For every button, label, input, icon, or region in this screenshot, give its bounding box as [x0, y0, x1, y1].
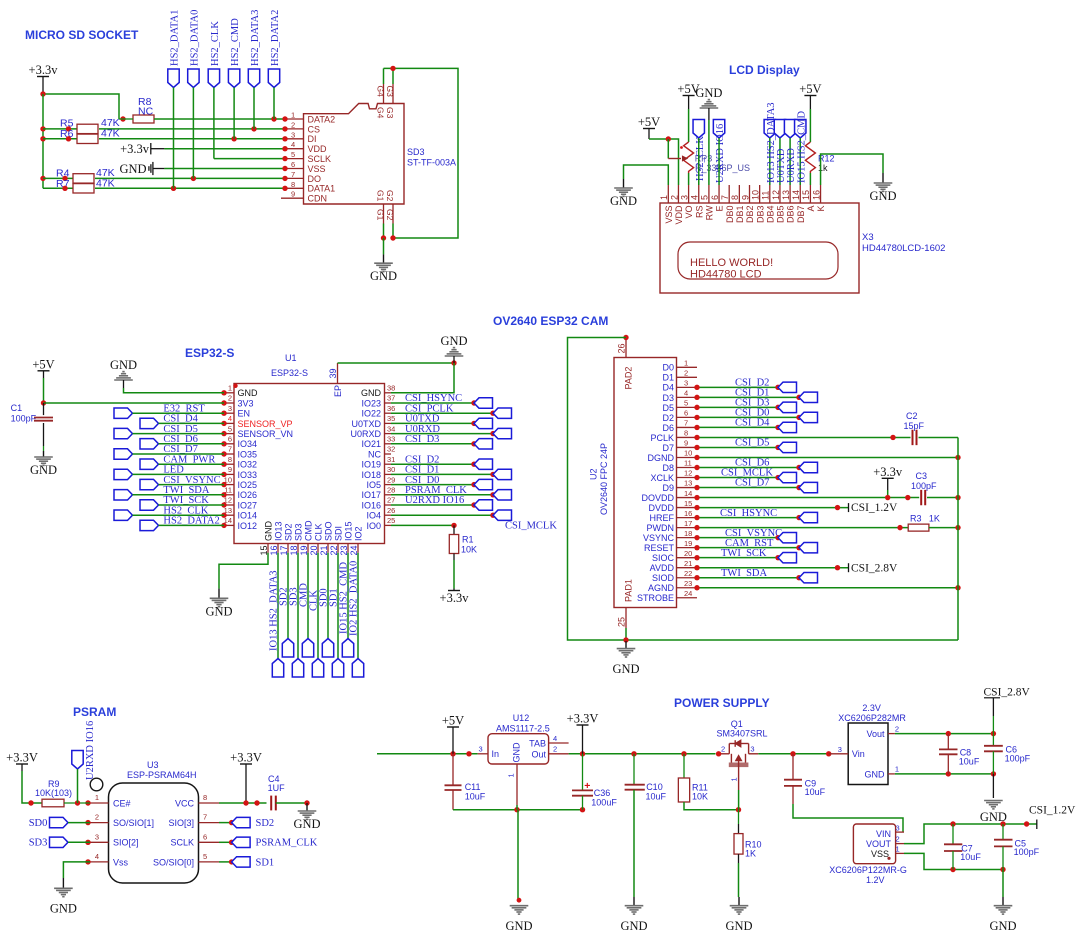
svg-text:Vss: Vss — [113, 857, 129, 867]
svg-text:PSRAM: PSRAM — [73, 705, 116, 719]
wire gnd to pin1 — [124, 380, 225, 393]
junction — [796, 465, 801, 470]
ground — [695, 86, 722, 120]
pin 13 IO14 — [224, 506, 257, 521]
nc circle — [90, 778, 103, 791]
svg-text:SD3: SD3 — [29, 838, 48, 849]
resistor R9 — [35, 779, 72, 807]
pin G4 top — [375, 84, 385, 119]
ground — [612, 641, 639, 676]
svg-text:U2RXD IO16: U2RXD IO16 — [85, 721, 96, 780]
svg-text:CE#: CE# — [113, 798, 131, 808]
pin 5 SENSOR_VN — [224, 424, 293, 439]
svg-text:HS2_DATA0: HS2_DATA0 — [189, 10, 200, 66]
junction — [471, 441, 476, 446]
wire — [809, 173, 811, 185]
power flag +3.3V — [567, 712, 599, 754]
svg-text:D3: D3 — [662, 393, 674, 403]
svg-text:5: 5 — [203, 852, 207, 861]
wire rail mid — [569, 753, 716, 755]
junction — [950, 821, 955, 826]
pin 11 IO26 — [224, 486, 257, 501]
junction — [62, 186, 67, 191]
junction — [62, 176, 67, 181]
wire row8 DATA1 — [95, 187, 285, 189]
junction — [466, 751, 471, 756]
svg-text:30: 30 — [387, 465, 395, 474]
svg-text:2: 2 — [291, 120, 295, 129]
junction — [826, 751, 831, 756]
svg-text:10uF: 10uF — [805, 787, 826, 797]
svg-text:RS: RS — [694, 206, 704, 219]
resistor R12 — [805, 142, 834, 173]
power flag +3.3V — [230, 751, 262, 804]
net flag TWI_SCK — [778, 552, 797, 562]
net port CSI_2.8V — [849, 562, 899, 574]
svg-text:ST-TF-003A: ST-TF-003A — [407, 158, 456, 168]
svg-text:EP: EP — [333, 385, 343, 397]
svg-text:OV2640 ESP32 CAM: OV2640 ESP32 CAM — [493, 314, 608, 328]
svg-text:7: 7 — [291, 170, 295, 179]
junction — [40, 136, 45, 141]
pin 24 IO2 — [349, 526, 364, 555]
junction — [282, 176, 287, 181]
pin 1 VSS — [659, 185, 674, 224]
svg-text:17: 17 — [684, 519, 692, 528]
svg-text:HD44780LCD-1602: HD44780LCD-1602 — [862, 243, 945, 254]
pin 9 D7 — [662, 439, 697, 453]
svg-text:AGND: AGND — [648, 583, 675, 593]
junction — [694, 415, 699, 420]
wire — [1002, 870, 1004, 898]
pin 7 SIO[3] — [168, 813, 219, 828]
pin 2 CS — [285, 120, 320, 134]
svg-text:34: 34 — [387, 424, 395, 433]
junction — [517, 898, 522, 903]
svg-text:GND: GND — [869, 189, 896, 203]
net flag CSI_D3 — [474, 439, 493, 449]
pin 12 XCLK — [650, 469, 697, 483]
junction — [282, 146, 287, 151]
svg-text:Q1: Q1 — [731, 719, 743, 729]
junction — [1024, 821, 1029, 826]
svg-text:IO33: IO33 — [238, 470, 258, 480]
svg-text:DI: DI — [308, 134, 317, 144]
svg-text:PAD2: PAD2 — [624, 367, 634, 390]
net flag SD1 — [232, 857, 251, 867]
wire — [789, 138, 791, 185]
resistor R8 — [133, 96, 154, 123]
junction — [471, 502, 476, 507]
wire wiper feed — [667, 139, 669, 159]
pin 31 IO19 — [361, 455, 395, 470]
net flag PSRAM_CLK — [493, 490, 512, 500]
svg-text:18: 18 — [684, 529, 692, 538]
wire row2 CS — [99, 128, 285, 130]
svg-text:GND: GND — [264, 521, 274, 542]
resistor R3 — [908, 514, 940, 531]
junction — [694, 575, 699, 580]
junction — [451, 360, 456, 365]
junction — [955, 495, 960, 500]
junction — [955, 455, 960, 460]
svg-text:6: 6 — [203, 832, 207, 841]
junction — [251, 126, 256, 131]
junction — [450, 751, 455, 756]
svg-text:U0RXD: U0RXD — [350, 429, 381, 439]
junction — [694, 485, 699, 490]
net label TWI_SDA — [721, 568, 767, 579]
wire vout row — [895, 733, 994, 735]
svg-text:DB2: DB2 — [745, 206, 755, 224]
net label SD2 — [256, 818, 275, 829]
svg-text:+5V: +5V — [799, 82, 821, 96]
junction — [191, 176, 196, 181]
pin G2 bottom — [385, 190, 395, 224]
wire — [391, 473, 493, 475]
junction — [1000, 867, 1005, 872]
svg-text:DB7: DB7 — [796, 206, 806, 224]
wire top loop — [384, 68, 459, 238]
svg-text:37: 37 — [387, 394, 395, 403]
junction — [694, 465, 699, 470]
net label HS2_CLK — [163, 505, 208, 516]
svg-text:NC: NC — [138, 106, 154, 118]
net label PSRAM_CLK — [405, 485, 467, 496]
svg-text:U2: U2 — [589, 468, 599, 480]
junction — [390, 235, 395, 240]
net flag TWI_SDA — [799, 573, 818, 583]
svg-text:2: 2 — [669, 195, 679, 200]
svg-text:SDO: SDO — [324, 521, 334, 541]
wire — [697, 547, 799, 549]
pin 5 SCLK — [285, 150, 331, 164]
svg-text:DB6: DB6 — [786, 206, 796, 224]
svg-text:10uF: 10uF — [959, 757, 980, 767]
net flag HS2_DATA1 — [168, 69, 179, 88]
svg-text:SIO[3]: SIO[3] — [168, 818, 194, 828]
junction — [716, 751, 721, 756]
junction — [221, 400, 226, 405]
svg-text:IO19: IO19 — [361, 460, 381, 470]
svg-text:AVDD: AVDD — [650, 563, 675, 573]
svg-text:GND: GND — [865, 770, 886, 780]
svg-text:DOVDD: DOVDD — [641, 493, 674, 503]
svg-text:VIN: VIN — [876, 829, 891, 839]
wire — [133, 412, 225, 414]
svg-text:1: 1 — [684, 359, 688, 368]
svg-text:2: 2 — [721, 744, 725, 753]
junction — [490, 472, 495, 477]
net flag CSI_D6 — [799, 462, 818, 472]
net port CSI_2.8V — [984, 687, 1031, 734]
ground — [505, 906, 532, 933]
wire — [133, 494, 225, 496]
wire gnd drop — [517, 810, 519, 899]
junction — [694, 495, 699, 500]
svg-text:GND: GND — [989, 919, 1016, 933]
pin 28 IO17 — [361, 486, 395, 501]
wire — [159, 422, 225, 424]
junction — [221, 523, 226, 528]
svg-text:2: 2 — [553, 745, 557, 754]
wire — [391, 504, 474, 506]
junction — [885, 495, 890, 500]
svg-text:TAB: TAB — [529, 739, 546, 749]
svg-text:SIOD: SIOD — [652, 573, 675, 583]
net label CAM_PWR — [163, 454, 215, 465]
svg-text:D4: D4 — [662, 383, 674, 393]
net label HS2_CLK — [695, 136, 706, 181]
wire row6 VSS — [164, 168, 285, 170]
net label CSI_D6 — [163, 434, 197, 445]
wire — [779, 138, 781, 185]
net label SD3 — [29, 838, 48, 849]
resistor R10 — [734, 810, 762, 859]
wire G4 up — [383, 68, 385, 84]
net flag IO2 HS2_DATA0 — [352, 659, 363, 678]
ic U4 body — [838, 703, 906, 785]
resistor R11 — [678, 754, 708, 802]
pin 6 E — [710, 185, 725, 212]
net label U0RXD — [405, 424, 440, 435]
junction — [796, 575, 801, 580]
net label SD2 — [278, 587, 289, 606]
junction — [694, 395, 699, 400]
power flag +3.3V — [6, 751, 38, 772]
wire — [927, 497, 958, 499]
wire — [697, 527, 908, 529]
wire +5v to pin2 — [649, 139, 679, 185]
svg-text:1K: 1K — [929, 514, 940, 524]
net label CLK — [308, 590, 319, 611]
svg-text:IO32: IO32 — [238, 460, 258, 470]
net flag SD3 — [292, 659, 303, 678]
wire vss row — [904, 853, 1003, 869]
pin 11 DB4 — [761, 185, 776, 223]
pin 22 SDI — [329, 526, 344, 556]
junction — [390, 66, 395, 71]
net label TWI_SCK — [721, 548, 767, 559]
svg-text:3: 3 — [479, 745, 483, 754]
wire — [77, 769, 79, 803]
junction — [796, 395, 801, 400]
net label E32_RST — [163, 403, 205, 414]
wire row1 DATA2 — [154, 118, 285, 120]
capacitor C4 — [268, 774, 286, 810]
junction — [381, 235, 386, 240]
pin 2 3V3 — [224, 394, 254, 409]
pin 2 Out — [549, 745, 569, 754]
net label CSI_D2 — [735, 378, 769, 389]
pin 4 RS — [690, 185, 705, 218]
net flag CSI_HSYNC — [474, 398, 493, 408]
pin G3 top — [385, 84, 395, 119]
ic U12 body — [488, 713, 550, 764]
svg-text:VO: VO — [684, 206, 694, 219]
svg-text:HD44780 LCD: HD44780 LCD — [690, 269, 762, 281]
junction — [694, 385, 699, 390]
pin 3 In — [478, 745, 488, 754]
svg-text:CMD: CMD — [304, 520, 314, 541]
svg-text:SENSOR_VP: SENSOR_VP — [238, 419, 293, 429]
pin 25 IO0 — [366, 516, 395, 531]
wire pin2 row — [44, 402, 225, 404]
svg-text:HS2_DATA2: HS2_DATA2 — [270, 10, 281, 66]
svg-text:5: 5 — [228, 424, 232, 433]
svg-text:4: 4 — [291, 140, 295, 149]
junction — [897, 525, 902, 530]
power flag +5V — [442, 714, 464, 754]
wire — [919, 436, 959, 438]
junction — [775, 475, 780, 480]
wire — [192, 88, 194, 179]
pin 35 U0TXD — [351, 414, 395, 429]
net flag HS2_DATA0 — [188, 69, 199, 88]
junction — [221, 451, 226, 456]
svg-text:C2: C2 — [906, 411, 918, 421]
net label LED — [163, 465, 184, 476]
junction — [282, 186, 287, 191]
svg-text:CSI_1.2V: CSI_1.2V — [851, 502, 898, 514]
pin 38 GND — [361, 384, 395, 399]
junction — [950, 867, 955, 872]
net label U2RXD IO16 — [405, 495, 464, 506]
net label CSI_PCLK — [405, 403, 454, 414]
svg-text:6: 6 — [291, 160, 295, 169]
wire — [697, 557, 778, 559]
svg-text:GND: GND — [120, 162, 147, 176]
wire — [391, 524, 454, 526]
junction — [991, 731, 996, 736]
wire — [297, 553, 299, 659]
junction — [171, 186, 176, 191]
svg-text:IO13: IO13 — [274, 521, 284, 541]
net label CSI_MCLK — [505, 520, 557, 531]
wire +5v to C1 — [43, 378, 45, 403]
wire — [391, 433, 493, 435]
pin 34 U0RXD — [350, 424, 395, 439]
pin 8 PCLK — [650, 429, 697, 443]
junction — [775, 555, 780, 560]
svg-text:10uF: 10uF — [646, 792, 667, 802]
svg-text:U12: U12 — [513, 713, 530, 723]
pin 5 D5 — [662, 399, 697, 413]
svg-text:DATA1: DATA1 — [308, 184, 336, 194]
net label IO13 HS2_DATA3 — [268, 570, 279, 651]
net flag LED — [114, 469, 133, 479]
svg-text:2: 2 — [684, 369, 688, 378]
svg-text:XCLK: XCLK — [650, 473, 674, 483]
svg-text:39: 39 — [328, 368, 338, 378]
net label U0TXD — [776, 148, 787, 183]
wire pin15 gnd — [219, 553, 268, 589]
svg-text:HS2_CLK: HS2_CLK — [210, 21, 221, 66]
wire — [697, 577, 799, 579]
pin 16 HREF — [650, 509, 698, 523]
pin 19 RESET — [644, 539, 697, 553]
svg-text:SD0: SD0 — [29, 818, 48, 829]
wire — [391, 443, 474, 445]
svg-text:C3: C3 — [916, 471, 928, 481]
svg-text:K: K — [816, 206, 826, 212]
wire — [738, 790, 740, 810]
net flag SD0 — [322, 639, 333, 658]
svg-text:+3.3V: +3.3V — [6, 751, 38, 765]
svg-text:G4: G4 — [375, 86, 385, 98]
junction — [282, 136, 287, 141]
svg-text:100pF: 100pF — [1005, 754, 1031, 764]
wire — [697, 587, 958, 589]
pin 2 VDD — [669, 185, 684, 225]
junction — [451, 523, 456, 528]
svg-text:10: 10 — [684, 449, 692, 458]
svg-text:4: 4 — [228, 414, 232, 423]
junction — [796, 485, 801, 490]
junction — [271, 116, 276, 121]
net flag CSI_D6 — [140, 439, 159, 449]
wire — [22, 771, 42, 803]
svg-text:15pF: 15pF — [904, 421, 925, 431]
pin 26 IO4 — [366, 506, 395, 521]
svg-text:9: 9 — [228, 465, 232, 474]
pin 17 PWDN — [647, 519, 698, 533]
svg-text:HS2_DATA1: HS2_DATA1 — [170, 10, 181, 66]
net flag CSI_D5 — [114, 428, 133, 438]
svg-text:27: 27 — [387, 496, 395, 505]
net label CSI_D7 — [735, 478, 769, 489]
svg-text:SDI: SDI — [334, 526, 344, 541]
net flag CSI_D2 — [778, 382, 797, 392]
wire — [738, 854, 740, 897]
wire — [391, 402, 474, 404]
pin 3 VIN — [896, 823, 905, 832]
svg-text:16: 16 — [811, 190, 821, 200]
svg-text:IO18: IO18 — [361, 470, 381, 480]
svg-text:+3.3v: +3.3v — [29, 63, 59, 77]
resistor R7 — [56, 178, 115, 193]
svg-text:26: 26 — [616, 343, 626, 353]
svg-text:3: 3 — [750, 744, 754, 753]
net label CSI_VSYNC — [725, 528, 782, 539]
svg-text:SM3407SRL: SM3407SRL — [717, 729, 768, 739]
wire — [697, 406, 778, 408]
junction — [221, 492, 226, 497]
svg-text:IO26: IO26 — [238, 490, 258, 500]
pin 18 VSYNC — [643, 529, 697, 543]
svg-text:RESET: RESET — [644, 543, 675, 553]
ic U5 body — [829, 824, 907, 885]
junction — [955, 585, 960, 590]
wire — [697, 567, 849, 569]
net flag CSI_D5 — [778, 442, 797, 452]
junction — [580, 751, 585, 756]
net label PSRAM_CLK — [256, 838, 318, 849]
wire — [276, 802, 307, 804]
svg-text:C1: C1 — [11, 403, 23, 413]
title: MICRO SD SOCKET — [25, 28, 139, 42]
svg-text:DB4: DB4 — [765, 206, 775, 224]
wire — [697, 537, 778, 539]
svg-text:IO23: IO23 — [361, 398, 381, 408]
junction — [666, 136, 671, 141]
pin 14 DB7 — [791, 185, 806, 223]
svg-text:G2: G2 — [385, 209, 395, 221]
svg-text:CLK: CLK — [314, 523, 324, 541]
junction — [282, 156, 287, 161]
wire — [697, 436, 911, 438]
junction — [796, 545, 801, 550]
